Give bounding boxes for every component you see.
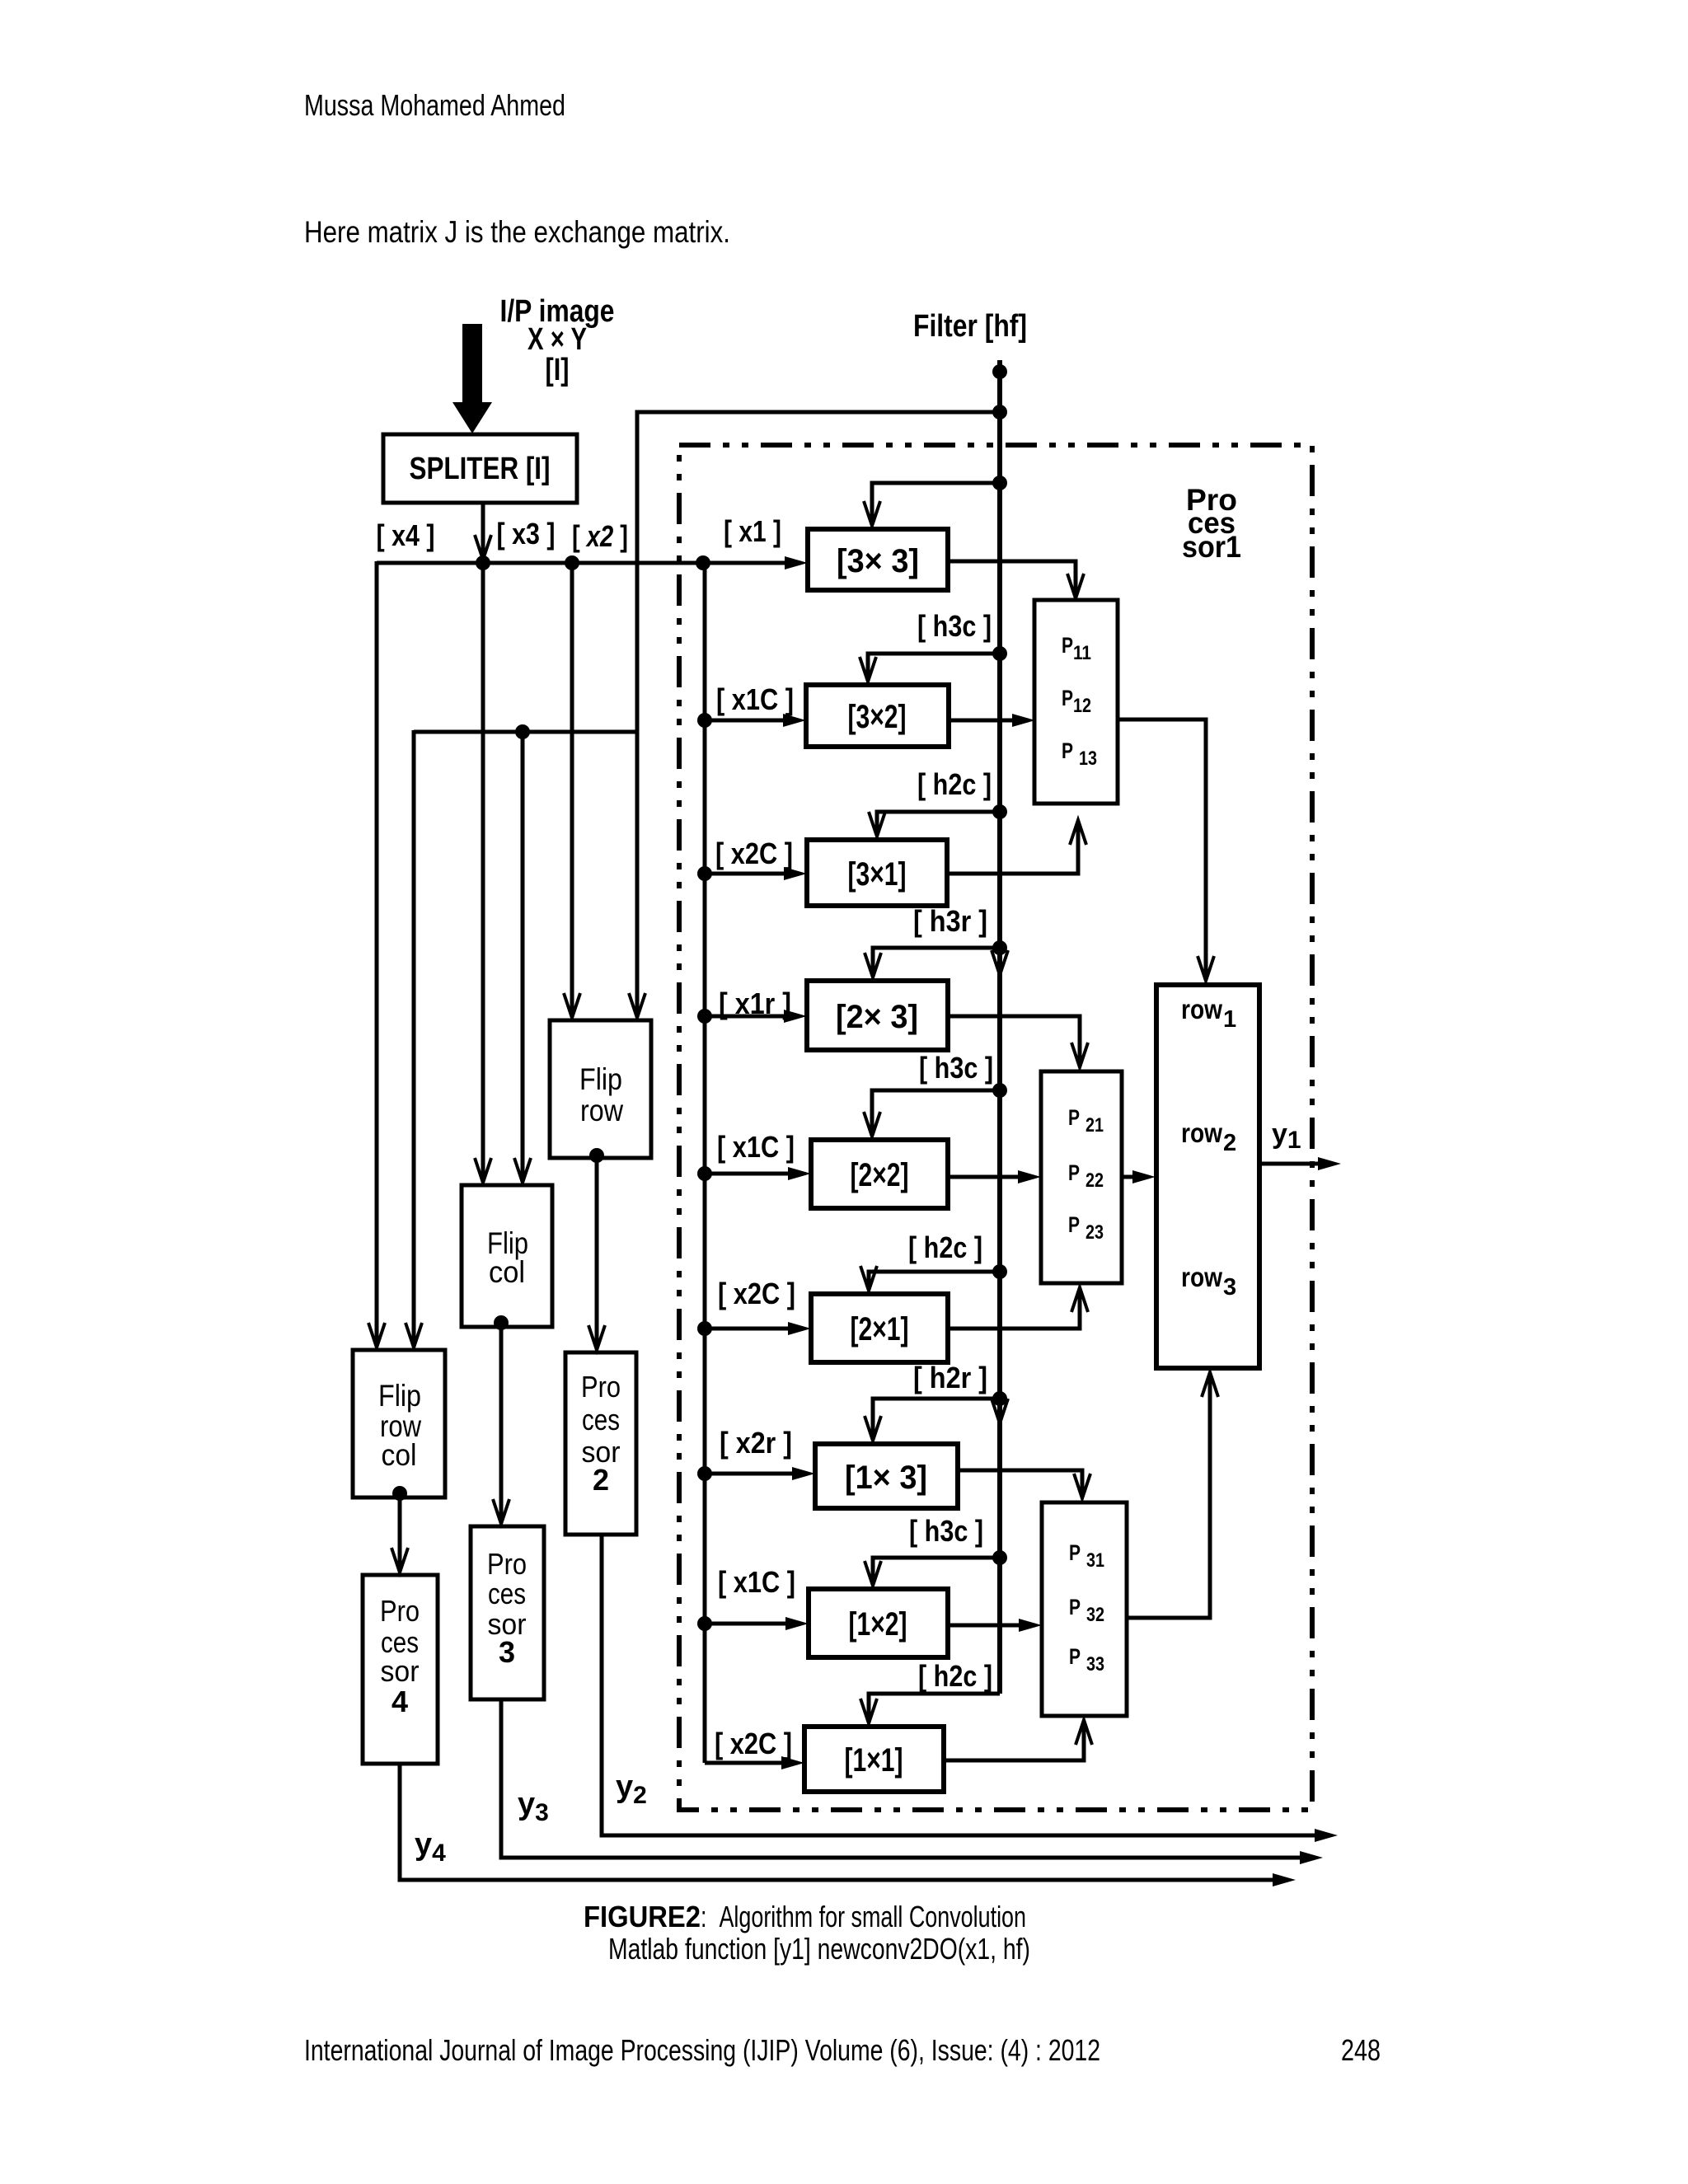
junction dot hf row4 [992,940,1007,955]
svg-text:Mussa Mohamed Ahmed: Mussa Mohamed Ahmed [304,88,565,122]
junction dot x1 branch row7 [697,1466,712,1481]
svg-text:[2×1]: [2×1] [851,1311,909,1347]
conv box [2&#215;2] row5 [811,1140,948,1208]
wire hf to Flip col [514,732,531,1183]
svg-text:31: 31 [1086,1549,1104,1572]
junction dot hf branch [515,724,530,739]
junction dot filter top [992,364,1007,379]
wire x branch row3 [705,867,807,880]
wire P3 output to row box [1127,1372,1218,1618]
junction dot hf row3 [992,804,1007,819]
svg-text:[3×2]: [3×2] [848,699,907,735]
svg-text:P: P [1068,1212,1080,1237]
wire Flip col to Processor 3 [493,1323,509,1524]
wire [1x2] output to P3 [948,1619,1042,1632]
junction dot Flip row output [589,1148,604,1163]
svg-text:y2: y2 [616,1769,647,1809]
svg-text:row: row [1181,1262,1222,1292]
wire [2x2] output to P2 [948,1170,1041,1183]
svg-text:sor: sor [381,1654,420,1688]
junction dot hf row6 [992,1264,1007,1279]
P box P21 P22 P23 [1041,1071,1122,1283]
SPLITER box [383,434,577,503]
wire y4 output [400,1764,1296,1886]
svg-text:[ h2c ]: [ h2c ] [918,1659,992,1693]
svg-text:P: P [1069,1540,1081,1565]
svg-text:13: 13 [1079,748,1097,770]
svg-text:P: P [1069,1595,1081,1619]
svg-text:[ x4 ]: [ x4 ] [377,518,435,552]
svg-text:[2× 3]: [2× 3] [836,999,918,1035]
svg-text:11: 11 [1073,642,1091,664]
svg-text:32: 32 [1086,1604,1104,1626]
wire [3x3] output to P1 [948,561,1084,598]
junction dot x1 branch row6 [697,1321,712,1336]
wire y3 output [501,1699,1323,1864]
svg-text:SPLITER [I]: SPLITER [I] [410,452,551,486]
svg-text:P: P [1069,1644,1081,1669]
svg-text:[1×1]: [1×1] [845,1742,903,1779]
junction dot x1 branch row8 [697,1616,712,1631]
svg-text:[ h2c ]: [ h2c ] [917,767,992,801]
wire x1 to [1x1] [705,1756,804,1769]
wire filter hf vertical [997,360,1002,1694]
Processor 4 box [363,1575,438,1764]
svg-text:12: 12 [1073,695,1091,717]
conv box [3&#215;2] row2 [806,685,949,747]
conv box [1&#215; 3] row7 [815,1444,958,1508]
svg-text:col: col [382,1438,417,1472]
svg-text:2: 2 [593,1463,609,1497]
wire x branch row8 [705,1617,809,1630]
wire hf to Flip row [629,412,1000,1018]
Processor1 dash-dot border [679,445,1312,1810]
svg-text:[ x2r ]: [ x2r ] [720,1426,792,1460]
wire x bus horizontal [377,556,808,569]
junction dot hf row5 [992,1083,1007,1098]
svg-text:: Algorithm for small Convolu: : Algorithm for small Convolution [701,1900,1026,1933]
svg-text:[ h3r ]: [ h3r ] [913,904,987,938]
svg-text:[ x2C ]: [ x2C ] [715,1727,792,1760]
svg-text:P: P [1062,633,1073,658]
svg-text:Flip: Flip [579,1062,622,1096]
svg-text:[ h3c ]: [ h3c ] [909,1514,983,1548]
junction dot x1 branch row5 [697,1166,712,1181]
junction dot hf row8 [992,1550,1007,1565]
svg-text:4: 4 [392,1685,408,1718]
arrowhead on filter line below h2r [992,1399,1008,1423]
Flip row col box [353,1350,445,1497]
svg-text:International Journal of Image: International Journal of Image Processin… [304,2033,1100,2067]
wire hf branch row7 [865,1399,1000,1441]
wire x1 vertical [703,563,707,1763]
svg-text:[ x1 ]: [ x1 ] [724,514,781,548]
svg-text:Pro: Pro [380,1594,420,1628]
svg-text:P: P [1068,1160,1080,1185]
svg-text:[ h2c ]: [ h2c ] [908,1230,982,1264]
junction dot x1 branch row3 [697,866,712,881]
junction dot hf row2 [992,646,1007,661]
svg-text:row: row [1181,994,1222,1024]
junction dot x1 branch row2 [697,713,712,728]
wire hf branch horizontal [414,730,637,734]
wire hf branch row9 [860,1694,1000,1723]
wire SPLITER output [475,503,491,560]
svg-text:[ h3c ]: [ h3c ] [917,609,992,643]
svg-text:Pro: Pro [487,1547,527,1581]
svg-text:row: row [1181,1118,1222,1148]
svg-text:row: row [580,1094,623,1127]
Flip col box [462,1185,552,1327]
svg-text:[ h2r ]: [ h2r ] [913,1361,987,1394]
Flip row box [550,1020,651,1158]
wire x branch row2 [705,714,806,727]
wire P2 output to row box [1122,1170,1156,1183]
wire [3x1] output to P1 [947,820,1086,874]
conv box [1&#215;1] row9 [804,1727,944,1792]
Processor 2 box [565,1352,636,1535]
svg-text:[ h3c ]: [ h3c ] [919,1051,993,1085]
svg-text:2: 2 [1223,1130,1236,1156]
junction dot hf top [992,405,1007,419]
svg-text:y1: y1 [1272,1118,1301,1154]
conv box [3&#215; 3] row1 [808,529,948,590]
svg-text:[ x1r ]: [ x1r ] [719,987,791,1020]
svg-text:y4: y4 [415,1827,446,1867]
wire x branch row6 [705,1322,811,1335]
svg-text:P: P [1062,738,1073,763]
junction dot x1 branch row4 [697,1009,712,1024]
junction dot x1 [696,555,710,570]
label Processor1 [1182,483,1241,564]
wire Flip row to Processor 2 [588,1155,605,1350]
svg-text:P: P [1068,1105,1080,1130]
svg-text:21: 21 [1085,1114,1104,1137]
wire x branch row7 [705,1467,815,1480]
svg-text:[ x1C ]: [ x1C ] [716,682,794,716]
conv box [1&#215;2] row8 [809,1589,948,1657]
wire hf to Flip row col [406,730,422,1347]
svg-text:1: 1 [1223,1006,1236,1033]
wire x3 vertical [475,563,491,1183]
svg-text:23: 23 [1085,1221,1104,1244]
svg-text:[3×1]: [3×1] [848,856,907,893]
svg-text:33: 33 [1086,1653,1104,1675]
input image big arrow [452,324,492,434]
wire [1x3] output to P3 [958,1470,1090,1498]
wire [3x2] output to P1 [949,714,1035,727]
svg-text:3: 3 [1223,1274,1236,1301]
svg-text:3: 3 [499,1635,515,1669]
wire P1 output to row box [1118,719,1214,981]
svg-text:Matlab function [y1] newconv2D: Matlab function [y1] newconv2DO(x1, hf) [608,1932,1030,1966]
junction dot Flip col output [494,1315,509,1330]
svg-text:y3: y3 [518,1787,549,1826]
svg-text:sor1: sor1 [1182,530,1241,564]
wire Flip row col to Processor 4 [392,1493,408,1572]
junction dot x2 [565,555,579,570]
Processor 3 box [471,1526,544,1699]
svg-text:[I]: [I] [546,353,570,387]
svg-text:FIGURE2: FIGURE2 [584,1900,701,1933]
svg-text:[ x2C ]: [ x2C ] [715,837,793,870]
wire hf branch row3 [869,812,1000,837]
wire [2x1] output to P2 [948,1287,1088,1329]
svg-text:[1×2]: [1×2] [849,1606,907,1643]
svg-text:[ x1C ]: [ x1C ] [717,1130,795,1164]
conv box [2&#215;1] row6 [811,1294,948,1362]
svg-text:Here matrix J is the exchange: Here matrix J is the exchange matrix. [304,215,730,249]
svg-text:22: 22 [1085,1169,1104,1192]
svg-text:ces: ces [582,1403,620,1436]
wire hf branch row8 [865,1558,1000,1586]
svg-text:X × Y: X × Y [527,322,587,357]
svg-text:[ x2C ]: [ x2C ] [718,1277,795,1310]
row box row1 row2 row3 [1156,985,1259,1368]
wire [2x3] output to P2 [948,1016,1088,1067]
svg-text:[1× 3]: [1× 3] [845,1460,927,1496]
wire x branch row4 [705,1010,807,1023]
wire hf branch row5 [864,1090,1000,1137]
label I/P image [500,294,615,387]
svg-text:Pro: Pro [581,1370,621,1404]
svg-text:[3× 3]: [3× 3] [837,543,919,579]
wire x2 vertical [564,563,580,1018]
svg-text:Flip: Flip [378,1379,421,1413]
svg-text:col: col [489,1255,525,1289]
P box P31 P32 P33 [1042,1502,1127,1716]
svg-text:Filter [hf]: Filter [hf] [913,309,1027,344]
wire hf branch row6 [860,1266,1000,1291]
arrowhead on filter line below h3r [992,950,1008,975]
wire hf branch row2 [860,654,1000,682]
wire hf branch row1 [864,483,1000,526]
P box P11 P12 P13 [1034,600,1118,804]
junction dot hf row7 [992,1391,1007,1406]
wire y1 output [1259,1157,1341,1170]
svg-text:248: 248 [1341,2033,1381,2067]
wire y2 output [602,1535,1338,1842]
svg-text:[ x2 ]: [ x2 ] [572,519,628,553]
junction dot Flip row col output [392,1486,407,1501]
wire x4 vertical [368,561,385,1347]
wire [1x1] output to P3 [944,1720,1092,1760]
svg-text:P: P [1062,686,1073,710]
svg-text:[ x3 ]: [ x3 ] [497,517,556,551]
wire x branch row5 [705,1167,811,1180]
wire hf branch row4 [865,948,1000,977]
svg-text:[2×2]: [2×2] [851,1157,909,1193]
junction dot x3 [476,555,490,570]
svg-text:ces: ces [488,1577,526,1610]
junction dot hf row1 [992,476,1007,490]
svg-text:[ x1C ]: [ x1C ] [718,1565,795,1599]
conv box [2&#215; 3] row4 [807,981,948,1050]
conv box [3&#215;1] row3 [807,840,947,906]
